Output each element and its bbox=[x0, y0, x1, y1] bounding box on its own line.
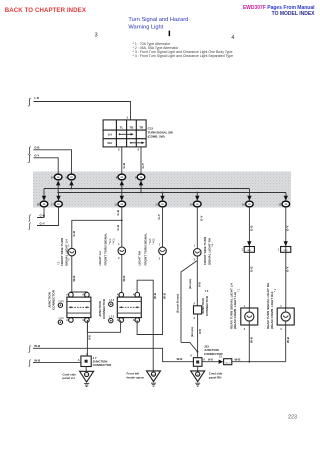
bus wire G-Y inside band bbox=[58, 192, 286, 194]
svg-text:* 4-2:: * 4-2: bbox=[152, 238, 155, 244]
wire bypass (Except Europe) bbox=[181, 261, 198, 352]
svg-text:SIGNAL LIGHT RH: SIGNAL LIGHT RH bbox=[207, 237, 211, 265]
svg-text:4: 4 bbox=[231, 35, 234, 41]
svg-text:223: 223 bbox=[288, 415, 297, 421]
connector BD2 inline on rear RH wire bbox=[284, 241, 288, 246]
svg-text:W-B: W-B bbox=[162, 292, 166, 299]
connector oval (bottom) 17 bbox=[58, 193, 60, 196]
RH contact arrow bbox=[130, 142, 132, 144]
connector oval (bottom) 13 bbox=[285, 195, 287, 197]
svg-text:(COMB. SW): (COMB. SW) bbox=[148, 135, 165, 139]
connector oval (top) 8 bbox=[68, 174, 76, 180]
svg-text:* 4-1:: * 4-1: bbox=[112, 238, 115, 244]
wire branch to front side lamp LH bbox=[72, 220, 122, 248]
svg-text:FRONT TURN SIGNAL: FRONT TURN SIGNAL bbox=[103, 233, 107, 266]
junction dots on buses bbox=[71, 188, 73, 190]
svg-text:G-B: G-B bbox=[116, 224, 120, 230]
svg-text:A: A bbox=[66, 319, 68, 322]
svg-text:CONNECTOR: CONNECTOR bbox=[205, 295, 209, 316]
wire J23 to ground bbox=[197, 366, 199, 371]
wire BC1 to rear lamps ground bus bbox=[232, 361, 286, 363]
ground: cowl side panel LH bbox=[80, 371, 94, 382]
svg-text:1D: 1D bbox=[284, 204, 287, 206]
wire switch TL output G-B bbox=[121, 147, 123, 174]
wire jumper J1 to J4 bbox=[87, 320, 120, 332]
svg-text:W-B: W-B bbox=[34, 344, 41, 348]
lamp: front side turn signal light LH bbox=[68, 248, 76, 256]
J1 side pins bbox=[58, 303, 62, 307]
svg-text:W-B: W-B bbox=[249, 336, 253, 343]
svg-text:G-Y: G-Y bbox=[199, 216, 203, 221]
svg-text:1D: 1D bbox=[70, 177, 73, 179]
wire J23 to BC1 bbox=[202, 361, 219, 363]
svg-text:G-Y: G-Y bbox=[141, 163, 145, 168]
svg-text:TO MODEL INDEX: TO MODEL INDEX bbox=[272, 11, 316, 17]
svg-text:A: A bbox=[190, 355, 192, 358]
wire switch TR output G-Y bbox=[140, 147, 142, 174]
wire side RH lamp ground split bbox=[196, 256, 198, 260]
svg-text:* 4 : Front Turn Signal Light: * 4 : Front Turn Signal Light and Cleara… bbox=[133, 54, 234, 58]
connector oval (top) 9 bbox=[137, 174, 145, 180]
svg-text:( J 1: ( J 1 bbox=[59, 300, 65, 303]
svg-text:(Europe): (Europe) bbox=[191, 327, 194, 337]
svg-text:1D: 1D bbox=[57, 177, 60, 179]
wire side lamp LH ground to junction connector J1 bbox=[70, 256, 87, 295]
junction connector J8 (Europe) bbox=[194, 306, 202, 314]
svg-text:LIGHT LH: LIGHT LH bbox=[98, 250, 102, 265]
wire front lamp LH ground to junction connector J4 bbox=[121, 255, 123, 293]
svg-text:W-B: W-B bbox=[88, 335, 91, 340]
svg-text:G-B: G-B bbox=[122, 162, 126, 168]
wire rear RH ground bbox=[285, 325, 287, 362]
svg-text:A: A bbox=[66, 294, 68, 297]
svg-text:CONNECTOR: CONNECTOR bbox=[51, 289, 55, 310]
svg-text:A: A bbox=[133, 294, 135, 297]
svg-text:G-Y: G-Y bbox=[157, 214, 161, 219]
svg-text:W-B: W-B bbox=[208, 358, 213, 361]
junction connector J7 bbox=[81, 356, 91, 367]
svg-text:TL: TL bbox=[120, 125, 124, 129]
wire rear LH ground bbox=[248, 325, 250, 362]
svg-text:fender apron: fender apron bbox=[127, 375, 145, 379]
lamp: front turn signal light RH bbox=[159, 247, 167, 255]
svg-text:1D: 1D bbox=[196, 204, 199, 206]
wire G-Y feed to band bbox=[34, 158, 59, 175]
junction connector J1 bbox=[67, 297, 91, 318]
svg-text:(Except Europe): (Except Europe) bbox=[176, 294, 179, 313]
svg-text:G-B: G-B bbox=[72, 230, 76, 236]
svg-text:1D: 1D bbox=[248, 204, 251, 206]
svg-text:(REAR COMB. LIGHT LH): (REAR COMB. LIGHT LH) bbox=[233, 292, 237, 329]
wire front RH lamp ground bbox=[137, 255, 162, 335]
svg-text:LIGHT RH: LIGHT RH bbox=[138, 250, 142, 265]
lamp: rear turn signal light RH (rear comb. light RH) bbox=[277, 308, 294, 325]
svg-text:A: A bbox=[86, 353, 88, 356]
svg-text:panel RH: panel RH bbox=[209, 375, 222, 379]
connector oval (top) 8 bbox=[118, 174, 126, 180]
svg-text:1D: 1D bbox=[120, 204, 123, 206]
wire J4 pin B1 to ground via front fender bbox=[137, 280, 153, 371]
svg-text:A: A bbox=[193, 317, 195, 320]
lamp: front turn signal light LH bbox=[118, 247, 126, 255]
svg-text:W-B: W-B bbox=[286, 336, 290, 343]
svg-text:W-B: W-B bbox=[177, 357, 184, 361]
J4 side pins bbox=[109, 302, 113, 306]
wire exit G-Y to other page bbox=[37, 207, 59, 226]
connector arrow BC1 bbox=[219, 360, 224, 364]
wire W-B brace2 to J7 bbox=[33, 362, 81, 364]
svg-text:Warning Light: Warning Light bbox=[128, 24, 163, 30]
wire L-R from brace to turn signal switch pin 1 bbox=[34, 102, 131, 120]
svg-text:(Europe): (Europe) bbox=[189, 279, 192, 289]
wire below J8 to J23 bbox=[197, 314, 199, 358]
svg-text:3: 3 bbox=[95, 33, 98, 39]
connector oval (bottom) 16 bbox=[248, 195, 250, 197]
svg-text:1D: 1D bbox=[120, 177, 123, 179]
wire W-B brace1 to J23 bbox=[33, 348, 194, 361]
svg-text:CONNECTOR: CONNECTOR bbox=[102, 298, 106, 319]
svg-text:(REAR COMB. LIGHT RH): (REAR COMB. LIGHT RH) bbox=[270, 292, 274, 329]
svg-text:1D: 1D bbox=[140, 177, 143, 179]
svg-text:FRONT TURN SIGNAL: FRONT TURN SIGNAL bbox=[143, 233, 147, 266]
svg-text:* 4 -: * 4 - bbox=[212, 242, 215, 247]
svg-text:J 8: J 8 bbox=[205, 290, 209, 293]
wire J7 to ground bbox=[85, 367, 87, 372]
svg-text:SIGNAL LIGHT LH: SIGNAL LIGHT LH bbox=[64, 238, 68, 266]
svg-text:W-B: W-B bbox=[235, 357, 242, 361]
svg-text:A: A bbox=[117, 319, 119, 322]
LH contact arrow bbox=[119, 133, 121, 135]
wire J1 to J7 bbox=[86, 320, 88, 356]
svg-text:Turn Signal and Hazard: Turn Signal and Hazard bbox=[128, 17, 188, 23]
svg-text:A: A bbox=[133, 319, 135, 322]
section divider tick bbox=[169, 31, 171, 37]
svg-text:G-B: G-B bbox=[34, 146, 39, 150]
svg-text:W-B: W-B bbox=[72, 275, 76, 282]
lamp: rear turn signal light LH (rear comb. light LH) bbox=[241, 308, 258, 325]
svg-text:LH: LH bbox=[108, 133, 112, 137]
connector BD1 inline on rear LH wire bbox=[247, 241, 251, 246]
svg-text:G-Y: G-Y bbox=[40, 221, 45, 225]
svg-text:1D: 1D bbox=[43, 204, 46, 206]
junction connector J23 bbox=[193, 358, 202, 367]
wire rear LH feed G-B bbox=[248, 207, 250, 308]
svg-text:A: A bbox=[193, 303, 195, 306]
svg-text:1D: 1D bbox=[161, 204, 164, 206]
wire G-B feed to band bbox=[34, 150, 72, 175]
svg-text:RH: RH bbox=[108, 141, 112, 145]
connector oval (bottom) 11 bbox=[43, 189, 45, 196]
connector oval (bottom) 11 bbox=[162, 193, 164, 196]
ground: cowl side panel RH bbox=[191, 371, 205, 382]
svg-text:( J 3: ( J 3 bbox=[109, 315, 115, 318]
svg-text:A: A bbox=[82, 319, 84, 322]
junction connector J4 bbox=[117, 297, 141, 318]
svg-text:panel LH: panel LH bbox=[62, 376, 74, 380]
svg-text:G-Y: G-Y bbox=[286, 267, 290, 272]
svg-text:G-B: G-B bbox=[116, 209, 120, 215]
svg-text:W-B: W-B bbox=[122, 275, 126, 282]
svg-text:( J 2: ( J 2 bbox=[109, 299, 115, 302]
wire front LH feed with branch bbox=[121, 207, 123, 247]
lamp: front side turn signal light RH bbox=[194, 249, 202, 257]
svg-text:( J 1: ( J 1 bbox=[59, 317, 65, 320]
wire rear RH feed G-Y bbox=[285, 207, 287, 308]
svg-text:G-Y: G-Y bbox=[286, 226, 290, 231]
svg-text:W-B: W-B bbox=[153, 292, 157, 299]
connector oval (top) 16 bbox=[54, 174, 62, 180]
svg-text:A: A bbox=[78, 359, 80, 362]
svg-text:W-B: W-B bbox=[199, 329, 202, 334]
svg-text:G-B: G-B bbox=[249, 225, 253, 231]
turn signal switch C13 table bbox=[103, 120, 146, 147]
svg-text:G-Y: G-Y bbox=[34, 154, 39, 158]
svg-text:G-B: G-B bbox=[40, 213, 46, 217]
wire Europe path through junction connector bbox=[196, 261, 198, 306]
svg-text:W-B: W-B bbox=[34, 358, 41, 362]
svg-text:CONNECTOR: CONNECTOR bbox=[93, 363, 112, 367]
connector oval (bottom) 10 bbox=[196, 193, 198, 196]
connector oval (bottom) 11 bbox=[121, 195, 123, 197]
bus wire G-B inside band bbox=[44, 188, 249, 190]
svg-text:1D: 1D bbox=[57, 204, 60, 206]
ground: front left fender apron bbox=[147, 371, 161, 382]
svg-text:A: A bbox=[117, 294, 119, 297]
svg-text:W-B: W-B bbox=[199, 282, 202, 287]
wire exit G-B to other page bbox=[37, 207, 44, 218]
svg-text:A: A bbox=[82, 294, 84, 297]
svg-text:BACK TO CHAPTER INDEX: BACK TO CHAPTER INDEX bbox=[5, 7, 87, 14]
wire front RH feed bbox=[162, 207, 164, 247]
wire front side RH feed bbox=[196, 207, 198, 249]
svg-text:G-B: G-B bbox=[249, 266, 253, 272]
